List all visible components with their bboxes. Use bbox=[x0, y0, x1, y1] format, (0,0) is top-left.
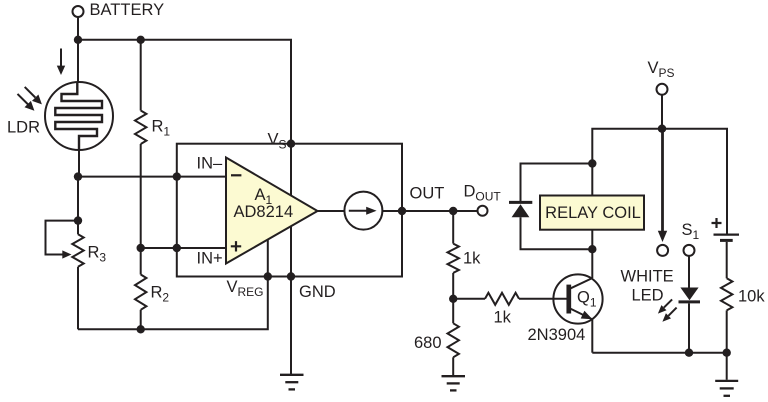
wire VS to GND internal bbox=[290, 144, 292, 277]
wire battery terminal to top rail bbox=[77, 17, 79, 40]
terminal BATTERY bbox=[73, 6, 84, 17]
wire IN- row bbox=[78, 176, 226, 178]
node relay bottom junction bbox=[588, 245, 596, 253]
resistor 1k (horizontal) bbox=[453, 293, 566, 305]
node VREG pin bbox=[264, 272, 272, 280]
resistor 680 bbox=[448, 299, 459, 375]
op-amp U box A1 bbox=[177, 144, 402, 277]
svg-text:IN–: IN– bbox=[197, 155, 224, 173]
svg-text:S1: S1 bbox=[682, 221, 700, 242]
node LED bottom junction bbox=[685, 349, 693, 357]
wire VREG bottom rail bbox=[78, 277, 268, 330]
svg-text:1k: 1k bbox=[494, 309, 512, 327]
wire top rail to VS bbox=[78, 40, 291, 144]
svg-text:AD8214: AD8214 bbox=[234, 203, 294, 221]
node IN- pin bbox=[173, 172, 181, 180]
battery cell plus sign bbox=[712, 218, 722, 228]
ground symbol (680) bbox=[442, 376, 466, 390]
wire emitter bottom rail bbox=[592, 352, 726, 354]
node GND pin bbox=[287, 272, 295, 280]
wire emitter bbox=[591, 319, 593, 353]
node relay top junction bbox=[588, 159, 596, 167]
wire S1 to LED bbox=[688, 256, 690, 288]
wire triangle output to current source bbox=[318, 210, 346, 212]
arrow light onto LDR (vertical) bbox=[57, 49, 65, 76]
terminal DOUT bbox=[478, 206, 488, 216]
wire OUT to DOUT bbox=[402, 210, 478, 212]
arrow LED emission 1 bbox=[658, 299, 672, 313]
terminal VPS bbox=[657, 84, 668, 95]
arrow LED emission 2 bbox=[662, 308, 676, 322]
svg-text:WHITE: WHITE bbox=[621, 268, 674, 286]
node OUT pin bbox=[398, 207, 406, 215]
node R3 wiper junction bbox=[74, 216, 82, 224]
svg-text:Q1: Q1 bbox=[577, 289, 597, 310]
wire VPS down bbox=[661, 95, 663, 129]
svg-text:BATTERY: BATTERY bbox=[90, 1, 165, 19]
node 1k/1k/680 junction bbox=[449, 295, 457, 303]
wire VREG internal bbox=[267, 240, 269, 277]
resistor 10k bbox=[721, 278, 732, 352]
node LDR / IN- junction bbox=[74, 172, 82, 180]
ground symbol (op-amp) bbox=[280, 375, 304, 390]
svg-text:R1: R1 bbox=[152, 118, 171, 139]
LED D1 bbox=[679, 288, 701, 353]
svg-text:VPS: VPS bbox=[648, 59, 675, 80]
svg-text:DOUT: DOUT bbox=[464, 183, 502, 204]
node R1 top junction bbox=[137, 36, 145, 44]
op-amp A1 triangle bbox=[226, 158, 318, 264]
terminal switch S1 bbox=[684, 245, 695, 256]
wire VPS rail bbox=[592, 129, 727, 234]
svg-text:1k: 1k bbox=[463, 250, 481, 268]
ground symbol (right) bbox=[715, 381, 738, 396]
current source symbol bbox=[344, 192, 382, 230]
node battery junction bbox=[74, 36, 82, 44]
arrow light ray 2 bbox=[18, 94, 35, 111]
arrow R3 wiper bbox=[62, 250, 71, 258]
svg-text:680: 680 bbox=[414, 334, 442, 352]
battery cell bbox=[714, 235, 740, 241]
node VPS junction bbox=[658, 125, 666, 133]
relay switch arm arrow bbox=[658, 129, 667, 242]
svg-text:LDR: LDR bbox=[7, 119, 40, 137]
wire diode top loop bbox=[521, 164, 593, 202]
node 1k top junction bbox=[449, 207, 457, 215]
terminal relay contact bbox=[657, 245, 668, 256]
wire R3 wiper loop bbox=[46, 221, 79, 255]
svg-text:IN+: IN+ bbox=[197, 250, 223, 268]
node R2 bottom junction bbox=[137, 325, 145, 333]
pin plus sign bbox=[231, 241, 241, 251]
pin minus sign bbox=[231, 174, 241, 176]
photoresistor LDR bbox=[45, 82, 113, 150]
arrow light ray 1 bbox=[25, 87, 42, 105]
svg-text:GND: GND bbox=[299, 283, 336, 301]
node R1/R2/IN+ junction bbox=[137, 244, 145, 252]
wire current source to OUT bbox=[382, 210, 402, 212]
wire diode bottom loop bbox=[521, 217, 593, 249]
svg-text:LED: LED bbox=[632, 287, 664, 305]
wire collector bbox=[591, 249, 593, 278]
svg-text:VS: VS bbox=[268, 131, 287, 152]
node 10k bottom junction bbox=[723, 349, 731, 357]
svg-text:OUT: OUT bbox=[410, 185, 445, 203]
wire LDR bottom lead bbox=[78, 150, 80, 177]
svg-text:R2: R2 bbox=[151, 284, 170, 305]
wire LDR junction down to wiper node bbox=[77, 177, 79, 221]
svg-text:VREG: VREG bbox=[227, 278, 264, 299]
wire relay coil branch bbox=[591, 164, 593, 250]
wire battery to 10k bbox=[726, 242, 728, 278]
resistor R2 bbox=[135, 248, 146, 329]
wire GND down bbox=[290, 277, 292, 375]
svg-text:RELAY COIL: RELAY COIL bbox=[545, 204, 641, 222]
wire LDR top lead bbox=[77, 40, 79, 83]
wire IN+ row bbox=[141, 247, 226, 249]
resistor R1 bbox=[135, 40, 146, 248]
svg-text:R3: R3 bbox=[88, 244, 107, 265]
wire to right ground bbox=[726, 353, 728, 380]
resistor 1k (vertical) bbox=[448, 211, 459, 299]
node VS pin bbox=[287, 140, 295, 148]
transistor Q1 bbox=[553, 274, 602, 323]
node IN+ pin bbox=[173, 244, 181, 252]
relay coil box bbox=[540, 196, 644, 230]
diode flyback bbox=[509, 202, 532, 217]
potentiometer R3 bbox=[72, 221, 83, 330]
svg-text:2N3904: 2N3904 bbox=[528, 326, 586, 344]
svg-text:10k: 10k bbox=[738, 288, 765, 306]
